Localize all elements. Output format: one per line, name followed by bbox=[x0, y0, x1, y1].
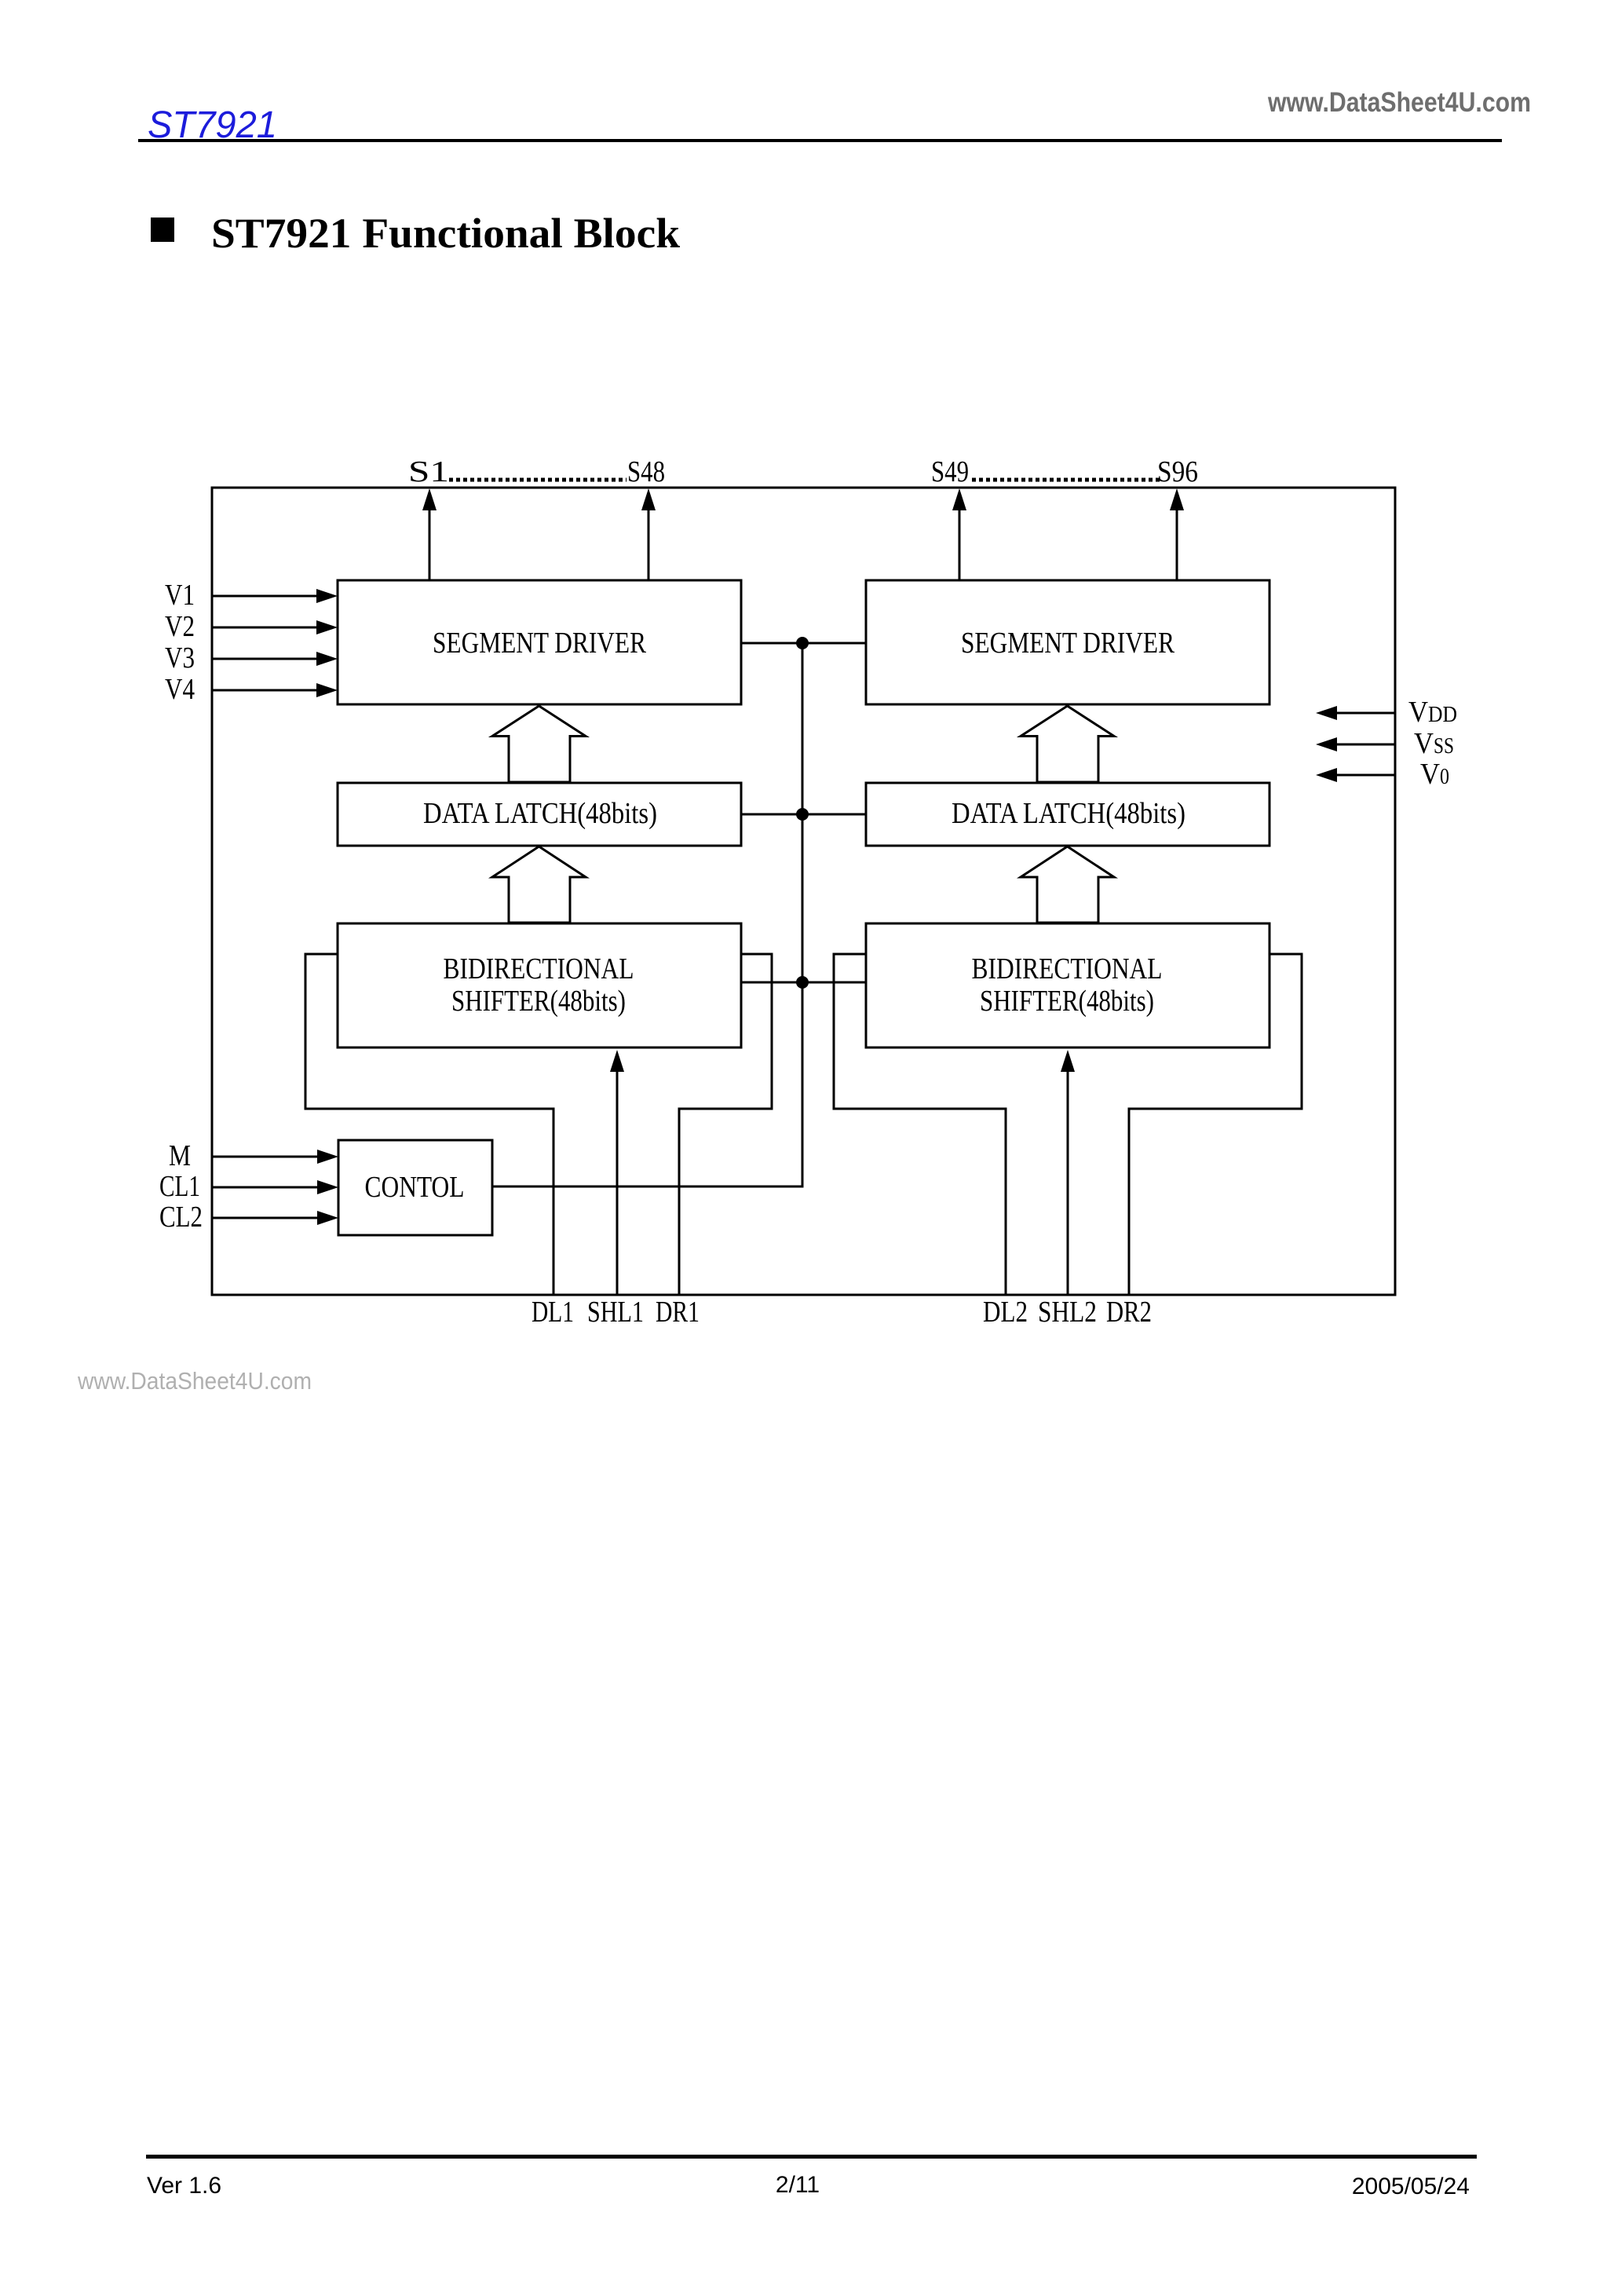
svg-text:ST7921 Functional Block: ST7921 Functional Block bbox=[211, 210, 680, 257]
svg-text:SHIFTER(48bits): SHIFTER(48bits) bbox=[451, 985, 626, 1018]
svg-text:SEGMENT DRIVER: SEGMENT DRIVER bbox=[961, 627, 1175, 660]
svg-text:SHL1: SHL1 bbox=[587, 1296, 644, 1329]
svg-text:S49: S49 bbox=[931, 455, 969, 488]
svg-text:DATA LATCH(48bits): DATA LATCH(48bits) bbox=[952, 797, 1185, 830]
svg-text:V: V bbox=[1414, 727, 1434, 760]
svg-text:V3: V3 bbox=[165, 642, 195, 675]
svg-text:BIDIRECTIONAL: BIDIRECTIONAL bbox=[444, 952, 634, 985]
svg-text:DL2: DL2 bbox=[983, 1296, 1028, 1329]
svg-text:DATA LATCH(48bits): DATA LATCH(48bits) bbox=[423, 797, 657, 830]
svg-text:www.DataSheet4U.com: www.DataSheet4U.com bbox=[1267, 87, 1531, 118]
svg-text:M: M bbox=[169, 1139, 191, 1172]
svg-text:CONTOL: CONTOL bbox=[365, 1171, 465, 1204]
svg-text:V: V bbox=[1408, 696, 1428, 729]
svg-text:SEGMENT DRIVER: SEGMENT DRIVER bbox=[433, 627, 647, 660]
svg-text:DD: DD bbox=[1428, 702, 1457, 727]
svg-text:CL1: CL1 bbox=[159, 1170, 200, 1203]
svg-text:CL2: CL2 bbox=[159, 1201, 203, 1234]
svg-text:0: 0 bbox=[1440, 764, 1449, 789]
svg-text:V4: V4 bbox=[165, 673, 195, 706]
svg-text:SHL2: SHL2 bbox=[1038, 1296, 1097, 1329]
svg-text:DR2: DR2 bbox=[1106, 1296, 1152, 1329]
svg-text:www.DataSheet4U.com: www.DataSheet4U.com bbox=[77, 1367, 312, 1395]
svg-text:SHIFTER(48bits): SHIFTER(48bits) bbox=[980, 985, 1154, 1018]
svg-text:V2: V2 bbox=[165, 610, 195, 643]
svg-text:SS: SS bbox=[1434, 733, 1454, 759]
svg-text:BIDIRECTIONAL: BIDIRECTIONAL bbox=[972, 952, 1163, 985]
svg-text:S96: S96 bbox=[1157, 455, 1198, 488]
svg-text:2005/05/24: 2005/05/24 bbox=[1352, 2174, 1470, 2199]
svg-text:DR1: DR1 bbox=[656, 1296, 700, 1329]
svg-text:S48: S48 bbox=[627, 455, 665, 488]
svg-text:DL1: DL1 bbox=[532, 1296, 574, 1329]
svg-text:S1: S1 bbox=[408, 455, 449, 488]
svg-text:Ver 1.6: Ver 1.6 bbox=[147, 2173, 221, 2199]
svg-text:2/11: 2/11 bbox=[776, 2172, 820, 2198]
svg-text:V1: V1 bbox=[165, 579, 195, 612]
svg-text:V: V bbox=[1420, 758, 1440, 791]
